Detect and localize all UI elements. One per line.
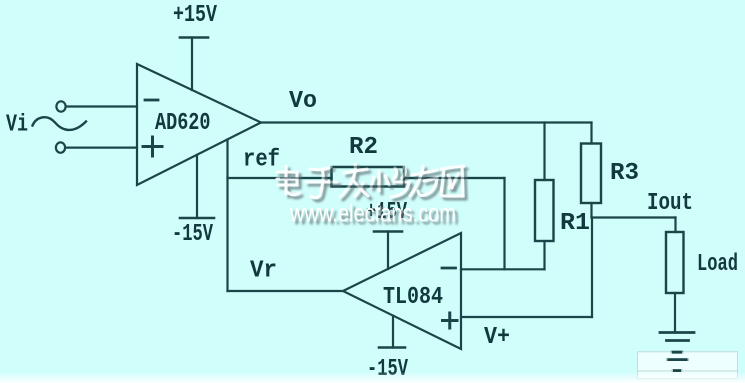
wire Vo corner down to R3 top xyxy=(590,123,592,144)
terminal circle upper xyxy=(56,101,65,111)
svg-text:-15V: -15V xyxy=(172,221,213,248)
label R1 xyxy=(560,210,590,237)
watermark chinese characters xyxy=(277,164,464,198)
terminal circle lower xyxy=(56,142,65,152)
power +15V bar (AD620 V+ supply) xyxy=(180,36,208,39)
pin - (AD620 inverting input marker) xyxy=(145,99,158,102)
label TL084 xyxy=(383,284,443,311)
char wang xyxy=(441,166,464,196)
wire inverting input xyxy=(66,105,137,107)
label V+ xyxy=(484,324,510,351)
svg-text:Vr: Vr xyxy=(250,258,277,285)
svg-text:Vo: Vo xyxy=(289,88,317,115)
watermark url www.elecfans.com xyxy=(289,200,456,228)
wire ref to R2 xyxy=(228,177,332,179)
wire Vo output line xyxy=(261,121,592,123)
svg-text:ref: ref xyxy=(243,147,280,174)
wire ref pin down and to Vr node xyxy=(226,140,228,292)
svg-text:AD620: AD620 xyxy=(155,110,211,137)
svg-text:+15V: +15V xyxy=(173,2,217,29)
power bar (TL084 V+ supply) xyxy=(374,230,402,233)
wire -15V supply lead (AD620) xyxy=(196,155,198,218)
svg-text:Load: Load xyxy=(697,251,738,278)
label Iout xyxy=(647,190,693,217)
label +15V xyxy=(173,2,217,29)
svg-text:R3: R3 xyxy=(610,160,639,187)
wire Load bottom lead to ground xyxy=(674,293,676,332)
char shao xyxy=(371,167,409,197)
wire +15V supply lead to AD620 xyxy=(191,38,193,91)
label Vi xyxy=(6,112,28,139)
bottom fade strip xyxy=(0,372,745,383)
resistor R2 body (visible through watermark) xyxy=(332,167,405,187)
wire non-inverting input xyxy=(66,147,137,149)
label Load xyxy=(697,251,738,278)
resistor R2 body xyxy=(332,167,405,187)
resistor R1 body xyxy=(535,180,554,241)
overlay white box upper xyxy=(638,352,738,371)
wire R2 right to minus-net vertical xyxy=(404,177,505,179)
resistor Load body xyxy=(666,232,684,293)
wire TL084 V+ supply lead xyxy=(387,232,389,270)
power -15V bar (TL084 V- supply) xyxy=(379,346,405,349)
wire vertical junction R2 net to inverting net xyxy=(503,178,505,269)
svg-text:V+: V+ xyxy=(484,324,510,351)
label AD620 xyxy=(155,110,211,137)
svg-text:Vi: Vi xyxy=(6,112,28,139)
pin - (TL084 inverting input marker) xyxy=(442,267,456,270)
label R2 xyxy=(349,134,378,161)
svg-text:TL084: TL084 xyxy=(383,284,443,311)
svg-text:R2: R2 xyxy=(349,134,378,161)
power -15V bar (AD620 V- supply) xyxy=(180,217,214,220)
source squiggle Vi xyxy=(33,117,87,130)
wire to TL084 non-inverting input xyxy=(461,316,592,318)
wire TL084 inverting input to R1 bottom xyxy=(461,268,545,270)
wire ref segment (visible through watermark) xyxy=(280,177,332,179)
ground symbol xyxy=(660,333,694,371)
wire Vo to R1 top xyxy=(543,123,545,181)
label -15V (TL084) xyxy=(367,356,408,383)
label Vo xyxy=(289,88,317,115)
char you xyxy=(410,166,437,196)
op-amp U2 TL084 triangle xyxy=(343,233,461,349)
char zi xyxy=(306,167,337,198)
wire TL084 V- supply lead xyxy=(392,316,394,348)
wire R2 right segment (visible through watermark) xyxy=(404,177,505,179)
char fa xyxy=(340,164,368,197)
pin + (AD620 non-inverting input marker) xyxy=(143,137,162,156)
ground symbol lower ticks over boxes xyxy=(668,352,688,370)
label Vr xyxy=(250,258,277,285)
wire Iout node down to V+ input level xyxy=(591,218,593,318)
label +15V (TL084 V+ supply, under watermark) xyxy=(366,199,407,226)
wire Vr to TL084 output xyxy=(228,290,344,292)
label -15V (AD620) xyxy=(172,221,213,248)
wire Load top lead xyxy=(674,218,676,233)
resistor R3 body xyxy=(581,144,601,204)
op-amp U1 AD620 triangle xyxy=(137,64,261,185)
label ref xyxy=(243,147,280,174)
wire Iout node to Load xyxy=(592,216,676,218)
overlay white box lower xyxy=(638,371,738,379)
label R3 xyxy=(610,160,639,187)
svg-text:www.elecfans.com: www.elecfans.com xyxy=(289,200,456,228)
svg-text:Iout: Iout xyxy=(647,190,693,217)
char dian xyxy=(277,166,299,195)
pin + (TL084 non-inverting input marker) xyxy=(443,313,458,328)
wire R1 bottom lead xyxy=(543,241,545,269)
wire R3 bottom lead xyxy=(590,203,592,218)
svg-text:R1: R1 xyxy=(560,210,590,237)
